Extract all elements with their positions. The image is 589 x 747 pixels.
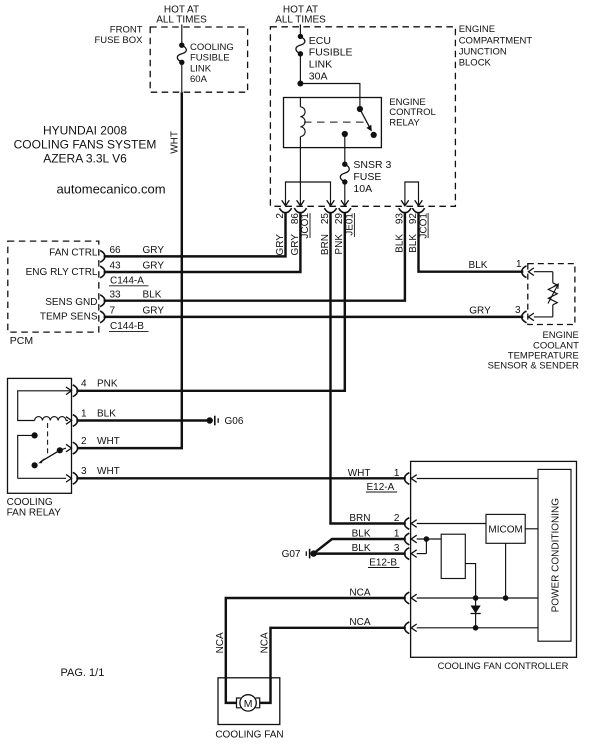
wire label NCA (rotated, left drop)	[215, 632, 226, 653]
controller connector pin (BLK) row y=553.6	[352, 543, 417, 560]
thermistor element inside sensor	[534, 272, 558, 317]
label ENGINE CONTROL RELAY	[389, 97, 435, 129]
svg-text:WHT: WHT	[97, 466, 120, 477]
svg-text:43: 43	[110, 261, 122, 272]
cooling fan relay connector pin 1 (BLK)	[73, 408, 116, 426]
wire: relay coil to connector pin 86	[299, 148, 301, 201]
wire GRY: PCM 43 ENG RLY CTRL to junction pin 86	[104, 213, 301, 272]
label PCM	[10, 335, 33, 347]
wire: SNSR fuse to connector pin 29	[344, 182, 346, 201]
label COOLING FAN	[215, 730, 283, 741]
svg-text:C144-B: C144-B	[110, 321, 144, 332]
svg-text:NCA: NCA	[349, 617, 370, 628]
connector pin 29 (PNK) at junction block bottom edge	[334, 200, 351, 254]
wire BLK: PCM 33 SENS GND to junction pin 93	[104, 213, 405, 301]
svg-text:POWER CONDITIONING: POWER CONDITIONING	[551, 498, 562, 613]
cooling fan relay coil	[35, 417, 72, 425]
svg-text:NCA: NCA	[260, 632, 271, 653]
wire NCA: controller to cooling fan (right)	[271, 628, 406, 678]
diode between NCA rows	[471, 598, 481, 631]
driver block (small rectangle)	[441, 534, 465, 578]
svg-text:SNSR 3: SNSR 3	[353, 159, 391, 171]
connector name C144-B (underlined)	[109, 321, 149, 332]
wire BLK: relay pin 1 to ground G06	[76, 419, 209, 421]
svg-text:30A: 30A	[309, 70, 328, 82]
svg-text:GRY: GRY	[143, 261, 165, 272]
svg-text:FAN RELAY: FAN RELAY	[7, 507, 62, 518]
controller connector pin (BRN) row y=523.5	[349, 513, 416, 530]
engine compartment junction block (dashed box)	[270, 27, 455, 207]
svg-text:BRN: BRN	[320, 234, 331, 255]
svg-text:ENG RLY CTRL: ENG RLY CTRL	[26, 267, 98, 278]
fusible link: COOLING FUSIBLE LINK 60A	[177, 43, 186, 66]
title text HYUNDAI 2008 / COOLING FANS SYSTEM / AZERA 3.3L V6	[14, 124, 157, 166]
svg-text:WHT: WHT	[97, 436, 120, 447]
bus wire joining pins 2 and 25 inside junction block	[286, 182, 331, 201]
svg-text:10A: 10A	[353, 183, 372, 195]
svg-text:E12-A: E12-A	[367, 482, 395, 493]
connector name JCO1 (pins 2/86)	[300, 213, 311, 239]
svg-text:25: 25	[320, 213, 331, 225]
connector pin 2 (GRY) at junction block bottom edge	[275, 200, 292, 255]
svg-text:PCM: PCM	[10, 335, 33, 347]
cooling fan relay connector pin 2 (WHT)	[73, 436, 120, 454]
svg-text:G07: G07	[282, 549, 301, 560]
svg-text:3: 3	[515, 305, 521, 316]
connector name JE01 (pins 25/29)	[345, 213, 356, 237]
svg-text:automecanico.com: automecanico.com	[56, 182, 165, 197]
svg-text:G06: G06	[225, 416, 244, 427]
svg-text:2: 2	[81, 436, 87, 447]
label ENGINE COOLANT TEMPERATURE SENSOR & SENDER	[488, 330, 580, 372]
svg-text:FUSE BOX: FUSE BOX	[94, 35, 143, 46]
svg-text:3: 3	[81, 466, 87, 477]
fuse SNSR 3 FUSE 10A	[340, 162, 349, 185]
svg-text:1: 1	[394, 528, 400, 539]
label ENGINE COMPARTMENT JUNCTION BLOCK	[459, 24, 533, 68]
svg-text:SENSOR & SENDER: SENSOR & SENDER	[488, 361, 579, 372]
svg-text:33: 33	[110, 289, 122, 300]
svg-text:FUSE: FUSE	[353, 171, 381, 183]
relay actuation dashed line	[304, 121, 365, 123]
svg-text:BLOCK: BLOCK	[459, 58, 492, 69]
cooling fan relay connector pin 3 (WHT)	[73, 466, 120, 484]
cooling fan relay switch	[18, 432, 72, 478]
wire BLK: G07 to controller E12-B pin 3	[314, 552, 406, 554]
cooling fan controller box	[411, 461, 577, 657]
wire BLK: junction pin 92 to coolant sensor pin 1	[419, 213, 524, 272]
wire: fusible link to fuse box edge	[181, 62, 183, 92]
wire: junction node to relay switch	[300, 84, 360, 110]
svg-text:WHT: WHT	[348, 468, 371, 479]
cooling fan relay internal wire to pin 3	[18, 475, 72, 483]
svg-text:PNK: PNK	[334, 234, 345, 255]
svg-text:BLK: BLK	[394, 234, 405, 253]
svg-text:PNK: PNK	[97, 379, 118, 390]
connector pin 92 (BLK) at junction block bottom edge	[408, 200, 425, 253]
PCM pin 7 TEMP SENS (GRY)	[40, 306, 164, 323]
svg-text:COOLING FAN CONTROLLER: COOLING FAN CONTROLLER	[438, 660, 569, 671]
svg-text:BLK: BLK	[97, 408, 116, 419]
PCM pin 33 SENS GND (BLK)	[45, 289, 161, 308]
front fuse box (dashed)	[150, 27, 247, 92]
svg-text:60A: 60A	[190, 74, 208, 85]
wire label GRY near sensor	[469, 306, 491, 317]
svg-text:M: M	[244, 698, 253, 710]
svg-text:4: 4	[81, 379, 87, 390]
svg-text:ALL TIMES: ALL TIMES	[275, 15, 326, 26]
svg-text:93: 93	[394, 213, 405, 225]
cooling fan relay internal wire pin4 to coil	[18, 387, 72, 421]
svg-text:COOLING: COOLING	[190, 42, 234, 53]
svg-text:COMPARTMENT: COMPARTMENT	[459, 35, 533, 46]
svg-text:BLK: BLK	[352, 528, 371, 539]
label SNSR 3 FUSE 10A	[353, 159, 391, 195]
svg-text:AZERA 3.3L V6: AZERA 3.3L V6	[43, 152, 127, 166]
controller connector pin (NCA) row y=627.8	[349, 617, 416, 634]
svg-text:2: 2	[394, 513, 400, 524]
svg-text:86: 86	[290, 213, 301, 225]
svg-text:HYUNDAI 2008: HYUNDAI 2008	[43, 124, 127, 138]
connector pin 93 (BLK) at junction block bottom edge	[394, 200, 411, 253]
bus wire joining pins 93 and 92 inside junction block	[405, 182, 419, 201]
sensor connector pin 1	[516, 259, 534, 278]
svg-text:GRY: GRY	[143, 245, 165, 256]
wire label NCA (rotated, right drop)	[260, 632, 271, 653]
svg-text:E12-B: E12-B	[369, 558, 397, 569]
svg-text:ENGINE: ENGINE	[459, 24, 495, 35]
controller internal wire: BLK pin 1 to driver block	[417, 536, 442, 542]
PCM pin 66 FAN CTRL (GRY)	[49, 245, 164, 262]
svg-text:ALL TIMES: ALL TIMES	[156, 15, 207, 26]
svg-text:BLK: BLK	[352, 543, 371, 554]
svg-text:66: 66	[110, 245, 122, 256]
wire WHT: relay pin 3 to cooling fan controller E12-A pin 1	[76, 477, 406, 479]
svg-text:BLK: BLK	[143, 289, 162, 300]
label COOLING FAN CONTROLLER	[438, 660, 569, 671]
fusible link: ECU FUSIBLE LINK 30A	[296, 34, 305, 57]
svg-text:LINK: LINK	[190, 63, 212, 74]
wire NCA: controller to cooling fan (left)	[226, 598, 406, 678]
svg-text:JUNCTION: JUNCTION	[459, 46, 507, 57]
svg-text:ECU: ECU	[309, 35, 331, 47]
node: HOT AT ALL TIMES (junction block feed)	[275, 5, 326, 26]
svg-text:92: 92	[408, 213, 419, 225]
svg-text:SENS GND: SENS GND	[45, 297, 97, 308]
connector pin 86 (GRY) at junction block bottom edge	[290, 200, 307, 255]
controller internal wire: NCA row 2 to power conditioning	[417, 627, 538, 629]
wire WHT main feed: fuse box to cooling fan relay pin 2	[78, 92, 182, 448]
svg-text:2: 2	[275, 213, 286, 219]
cooling fan motor M	[237, 695, 260, 711]
wire label BLK near sensor	[469, 260, 488, 271]
svg-text:GRY: GRY	[143, 306, 165, 317]
MICOM block	[486, 514, 525, 543]
label FRONT FUSE BOX	[94, 25, 143, 46]
svg-text:WHT: WHT	[169, 131, 180, 154]
svg-text:TEMP SENS: TEMP SENS	[40, 312, 98, 323]
svg-text:3: 3	[394, 543, 400, 554]
svg-text:BRN: BRN	[349, 513, 370, 524]
controller internal wire: MICOM to NCA row 1	[503, 543, 509, 601]
svg-text:NCA: NCA	[215, 632, 226, 653]
ground G06	[207, 416, 244, 428]
svg-text:FUSIBLE: FUSIBLE	[309, 47, 353, 59]
power conditioning block	[538, 469, 571, 641]
svg-text:1: 1	[394, 468, 400, 479]
svg-text:BLK: BLK	[469, 260, 488, 271]
connector name C144-A (underlined)	[109, 276, 149, 287]
PCM box (dashed)	[8, 241, 99, 332]
wire BLK: G07 to controller E12-B pin 1	[315, 539, 406, 552]
wire from HOT AT ALL TIMES into junction block	[299, 25, 301, 37]
svg-text:1: 1	[516, 259, 522, 270]
sensor connector pin 3	[515, 305, 534, 323]
svg-text:MICOM: MICOM	[488, 525, 522, 536]
svg-text:GRY: GRY	[469, 306, 491, 317]
controller internal wire: WHT pin to power conditioning	[417, 478, 538, 480]
node: HOT AT ALL TIMES (front fuse box feed)	[156, 5, 207, 26]
controller internal wire: BRN pin to MICOM	[417, 523, 486, 525]
svg-text:LINK: LINK	[309, 59, 332, 71]
wire from HOT AT ALL TIMES into fuse box	[181, 25, 183, 46]
connector name E12-B (underlined)	[368, 558, 400, 569]
svg-text:COOLING FAN: COOLING FAN	[215, 730, 283, 741]
controller internal wire: MICOM to power conditioning	[525, 528, 538, 530]
svg-text:FUSIBLE: FUSIBLE	[190, 53, 230, 64]
cooling fan relay box	[8, 378, 72, 493]
wire GRY: PCM 66 FAN CTRL to junction pin 2	[104, 213, 286, 257]
controller connector pin (NCA) row y=598.0	[349, 587, 416, 604]
connector name E12-A (underlined)	[366, 482, 397, 493]
cooling fan relay connector pin 4 (PNK)	[73, 379, 118, 397]
svg-text:FAN CTRL: FAN CTRL	[49, 248, 98, 259]
cooling fan relay actuation dashed line	[47, 423, 49, 456]
controller internal wire: BLK pin 3 joins BLK pin 1	[417, 539, 427, 554]
relay coil (engine control relay)	[300, 98, 305, 148]
cooling fan motor wires inside box	[226, 678, 271, 703]
wire label WHT (rotated)	[169, 131, 180, 154]
svg-text:1: 1	[81, 408, 87, 419]
svg-text:GRY: GRY	[275, 234, 286, 256]
svg-text:7: 7	[110, 306, 116, 317]
controller connector pin (BLK) row y=539.0	[352, 528, 417, 545]
label COOLING FAN RELAY	[7, 497, 62, 519]
connector name JCO1 (pins 93/92)	[418, 213, 429, 239]
page number PAG. 1/1	[61, 667, 105, 679]
watermark automecanico.com	[56, 182, 165, 197]
svg-text:29: 29	[334, 213, 345, 225]
PCM pin 43 ENG RLY CTRL (GRY)	[26, 261, 165, 278]
ground G07	[282, 549, 317, 560]
wire BRN: junction pin 25 to controller pin 2	[331, 213, 406, 524]
label COOLING FUSIBLE LINK 60A	[190, 42, 234, 85]
engine coolant temperature sensor box (dashed)	[528, 264, 575, 325]
svg-text:C144-A: C144-A	[110, 276, 144, 287]
controller internal wire: driver block to NCA rows	[465, 564, 478, 601]
connector pin 25 (BRN) at junction block bottom edge	[320, 200, 337, 255]
wire: relay switch to SNSR 3 fuse	[344, 134, 346, 164]
svg-text:COOLING FANS SYSTEM: COOLING FANS SYSTEM	[14, 138, 157, 152]
wire GRY: PCM 7 TEMP SENS to coolant sensor pin 3	[104, 316, 524, 318]
relay switch (engine control relay)	[342, 106, 377, 138]
svg-text:COOLING: COOLING	[7, 497, 53, 508]
svg-text:PAG. 1/1: PAG. 1/1	[61, 667, 105, 679]
controller internal wire: NCA row 1 to power conditioning	[417, 597, 538, 599]
svg-text:GRY: GRY	[290, 234, 301, 256]
svg-text:BLK: BLK	[408, 234, 419, 253]
wire PNK: relay pin 4 to junction pin 29	[76, 213, 345, 391]
wire: ECU link to junction node	[299, 54, 301, 84]
svg-text:NCA: NCA	[349, 587, 370, 598]
label ECU FUSIBLE LINK 30A	[309, 35, 353, 82]
svg-text:RELAY: RELAY	[389, 117, 420, 128]
node: junction dot after ECU fusible link	[297, 81, 303, 87]
controller connector pin (WHT) row y=478.5	[348, 468, 417, 485]
cooling fan box	[218, 678, 280, 725]
engine control relay box	[284, 98, 382, 148]
